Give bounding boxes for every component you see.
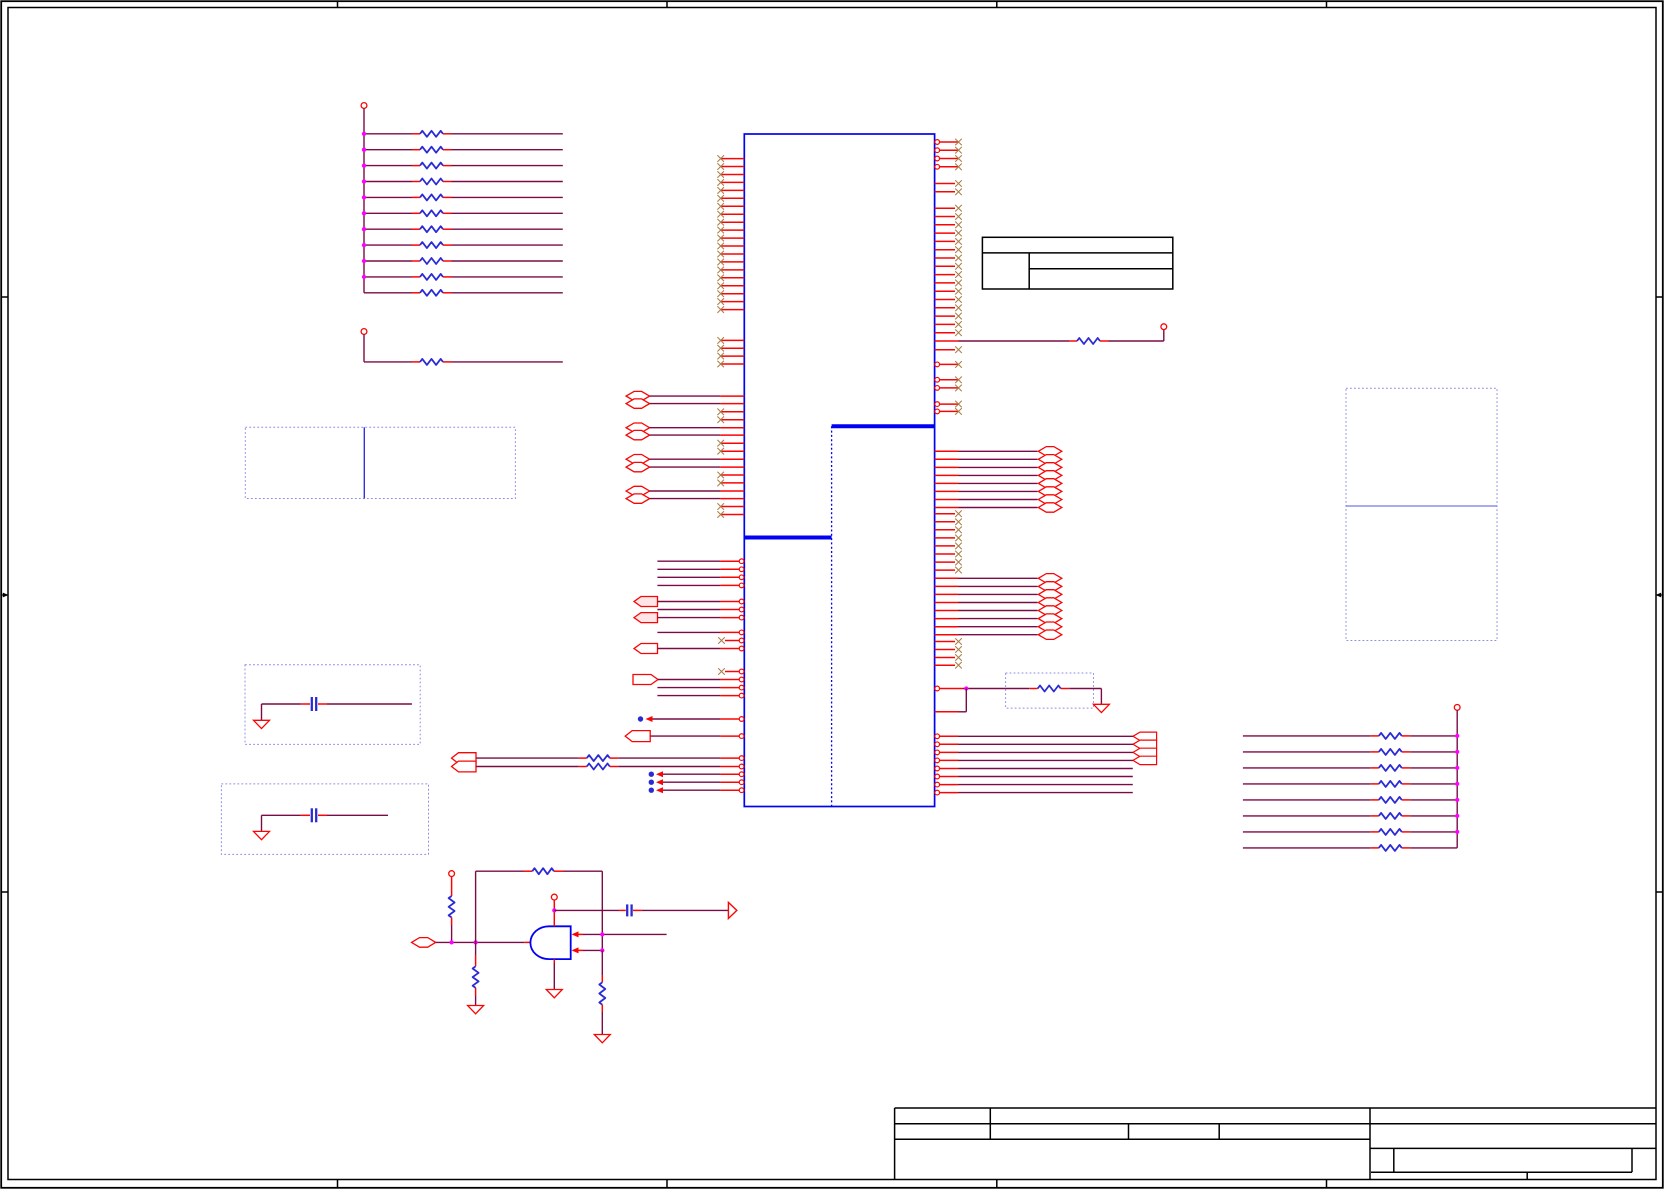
IC pin NC right bub 3 [935,155,962,162]
bus terminal B1-6 [1038,495,1062,504]
resistor R10 [364,274,563,280]
wire feedback right [564,871,603,950]
IC pin NC left 15 [717,267,744,274]
bus terminal pair 1b [626,399,650,408]
junction JRB3 [1455,766,1459,770]
IC U1 dotted section divider [831,426,833,806]
junction J2 [473,940,477,944]
IC pin NC left 12 [717,243,744,250]
IC pin NC left 17 [717,283,744,290]
junction JR4 [362,179,366,183]
bus terminal C-0 [1133,732,1157,740]
gate input arrow 1 [572,931,667,937]
IC pin NC left 3 [717,171,744,178]
bus terminal pair 4a [626,486,650,495]
IC U1 body [744,134,934,807]
wire net F5 [651,734,744,739]
wire cap net [554,909,626,911]
junction J5 [552,908,556,912]
gate bottom pin net [553,959,555,989]
wire feedback top [476,871,524,942]
bus terminal B1-2 [1038,463,1062,472]
wire net E1 [935,774,1133,779]
wire net A8 [657,693,744,698]
bus terminal B2-4 [1038,606,1062,615]
resistor R9 [364,258,563,264]
IC pin NC right bub 1 [935,139,962,146]
wire net A4 [657,583,744,588]
junction JR1 [362,132,366,136]
resistor R3 [364,163,563,169]
bidir terminal T2 [452,761,477,772]
wire net F2 [658,615,744,620]
IC pin NC left 16 [717,275,744,282]
IC pin NC left mid 1 [717,337,744,344]
ground G6 [546,990,562,998]
component outline box B1 [245,427,515,498]
bus wire B2-0 [935,577,1038,579]
IC pin NC rs2a 5 [935,543,962,550]
IC pin NC rs2b 1 [935,638,962,645]
IC pin NC left 13 [717,251,744,258]
bus terminal B2-0 [1038,574,1062,583]
bus terminal pair 3b [626,462,650,471]
IC pin NC left 6 [717,195,744,202]
IC pin NC cluster 4d [717,511,744,518]
IC pin NC left 20 [717,306,744,313]
bus terminal B1-7 [1038,503,1062,512]
wire main net [436,941,531,943]
IC pin NC right grp 9 [935,271,962,278]
IC pin NC rs2a 4 [935,535,962,542]
IC pin NC left 2 [717,163,744,170]
power pin P1 [361,103,367,109]
node stub D3 [649,779,744,785]
IC pin NC rs2a 8 [935,567,962,574]
wire pin 4b [650,498,745,500]
junction J3 [600,932,604,936]
resistor R4 [364,179,563,185]
IC pin NC right bub2 3 [935,385,962,392]
title block [895,1108,1656,1180]
box B2 divider [1346,505,1497,507]
IC pin NC rs2a 2 [935,519,962,526]
wire net F4 [658,677,744,682]
junction JR8 [362,243,366,247]
IC pin NC rs2a 3 [935,527,962,534]
bus wire B1-6 [935,499,1038,501]
IC pin NC right bub 2 [935,147,962,154]
IC pin NC right grp 5 [935,238,962,245]
IC pin NC right grp 14 [935,313,962,320]
bus terminal pair 3a [626,455,650,464]
IC pin NC left 14 [717,259,744,266]
IC pin NC left mid 3 [717,353,744,360]
junction JR7 [362,227,366,231]
wire net F1 [658,599,744,604]
wire pin 1b [650,403,745,405]
IC pin NC cluster 2d [717,448,744,455]
gate input arrow 2 [572,947,603,953]
power pin P2 [361,329,367,335]
bus terminal B2-3 [1038,598,1062,607]
resistor R11 [364,290,563,296]
power rail net 2 [1456,710,1458,848]
resistor R20 [476,755,744,761]
bus wire B2-5 [935,618,1038,620]
ground G5 [1093,704,1109,712]
bus terminal B2-5 [1038,614,1062,623]
IC pin NC cluster 4c [717,503,744,510]
power pin P5 [449,871,455,877]
IC pin NC right grp 16 [935,329,962,336]
bus terminal B2-6 [1038,622,1062,631]
IC pin NC cluster 3d [717,480,744,487]
wire net A7 [657,685,744,690]
resistor R5 [364,194,563,200]
IC pin NC cluster 1d [717,416,744,423]
bus wire B1-5 [935,490,1038,492]
bus wire B1-0 [935,450,1038,452]
wire pin 2a [650,427,745,429]
wire pin 1a [650,395,745,397]
IC pin NC right bub 4 [935,164,962,171]
resistor R19 pullup [935,330,1164,345]
frame centre arrow right [1656,593,1663,598]
bus terminal B1-0 [1038,447,1062,456]
wire net A3 [657,575,744,580]
bus terminal B2-7 [1038,630,1062,639]
IC pin NC left 18 [717,290,744,297]
IC pin NC right grp 12 [935,296,962,303]
IC pin NC right grp 7 [935,255,962,262]
power pin P3 [1161,324,1167,330]
resistor RB8 [1243,845,1457,851]
IC pin NC left 5 [717,187,744,194]
wire pin 3a [650,458,745,460]
resistor R21 [476,764,744,770]
bus terminal B1-5 [1038,487,1062,496]
bus terminal B1-1 [1038,455,1062,464]
bus wire B2-7 [935,634,1038,636]
IC pin NC s2-2 [718,668,744,675]
bus wire B2-4 [935,610,1038,612]
resistor RB6 [1243,813,1457,819]
bus wire B2-3 [935,602,1038,604]
IC pin NC right 2 [935,189,962,196]
IC pin NC right bub3 1 [935,401,962,408]
flag terminal F1 [634,597,658,607]
revision table [982,237,1172,289]
resistor RB5 [1243,797,1457,803]
power pin P6 [551,894,557,900]
IC U1 section divider bold bar upper [832,424,935,428]
node stub D2 [649,771,744,777]
bus terminal pair 1a [626,391,650,400]
junction J4 [600,948,604,952]
box B1 divider [363,427,365,498]
wire net E3 [935,790,1133,795]
flag terminal F3 [634,644,658,654]
junction JR9 [362,259,366,263]
wire net RC1 [935,686,1006,691]
IC pin NC rs2b 4 [935,662,962,669]
bus wire B1-3 [935,474,1038,476]
IC pin NC right grp 4 [935,230,962,237]
wire pin 3b [650,466,745,468]
bus terminal pair 4b [626,494,650,503]
IC pin NC rs2a 6 [935,551,962,558]
bus terminal B2-1 [1038,582,1062,591]
resistor R7 [364,226,563,232]
IC pin NC right bub2 2 [935,377,962,384]
component outline box B3 [245,665,420,745]
bus terminal C-2 [1133,748,1157,756]
bus wire C-3 [935,758,1133,763]
bus wire C-0 [935,734,1133,739]
component outline box B2 [1346,388,1497,640]
capacitor C3 [626,904,628,916]
IC pin NC cluster 1c [717,409,744,416]
resistor R30 [449,877,455,943]
node stub D1 [638,716,744,722]
bus terminal pair 2a [626,423,650,432]
IC pin NC left 8 [717,211,744,218]
bus wire B1-2 [935,466,1038,468]
wire net A1 [657,559,744,564]
junction JR5 [362,195,366,199]
resistor R31 [524,868,564,874]
bus terminal C-3 [1133,756,1157,764]
ground G3 [468,1006,484,1014]
bus terminal C-1 [1133,740,1157,748]
junction JR3 [362,163,366,167]
wire net F3 [658,646,744,651]
junction J1 [449,940,453,944]
bus terminal B2-2 [1038,590,1062,599]
power pin P4 [1454,705,1460,711]
IC pin NC right grp 13 [935,305,962,312]
bus wire C-2 [935,750,1133,755]
junction JRB4 [1455,782,1459,786]
bus wire B2-6 [935,626,1038,628]
junction J-RC1 [964,686,968,690]
IC pin NC right grp 11 [935,288,962,295]
IC pin NC rs2b 3 [935,654,962,661]
IC pin NC left 1 [717,155,744,162]
bus wire B2-2 [935,593,1038,595]
resistor RB2 [1243,749,1457,755]
IC pin NC left 4 [717,179,744,186]
junction JR6 [362,211,366,215]
junction JR2 [362,148,366,152]
wire net A5 [657,607,744,612]
bus terminal pair 2b [626,430,650,439]
resistor R22 box [1006,673,1094,708]
IC pin NC left mid 2 [717,345,744,352]
wire cap out [633,909,728,911]
capacitor C2 [262,808,389,831]
junction JRB5 [1455,798,1459,802]
wire pin 4a [650,490,745,492]
wire pin 2b [650,434,745,436]
IC pin NC left 11 [717,235,744,242]
junction JRB2 [1455,750,1459,754]
IC pin NC rs2a 1 [935,510,962,517]
IC pin NC left 10 [717,227,744,234]
IC pin NC right grp 3 [935,222,962,229]
IC pin NC right grp 15 [935,321,962,328]
junction JR10 [362,275,366,279]
bus terminal B1-4 [1038,479,1062,488]
resistor R2 [364,147,563,153]
component outline box B4 [221,784,428,855]
junction JRB6 [1455,814,1459,818]
frame centre arrow left [1,593,8,598]
IC pin NC right 1 [935,180,962,187]
IC pin NC right grp 8 [935,263,962,270]
output terminal T4 [728,902,736,918]
resistor R12 [364,334,563,365]
resistor RB7 [1243,829,1457,835]
junction JRB7 [1455,830,1459,834]
IC pin NC right grp 2 [935,213,962,220]
IC pin NC left 19 [717,298,744,305]
IC pin NC right grp 1 [935,205,962,212]
resistor RB4 [1243,781,1457,787]
bus wire B1-4 [935,482,1038,484]
bus wire B2-1 [935,585,1038,587]
IC pin NC cluster 3c [717,472,744,479]
IC pin NC right grp 6 [935,246,962,253]
capacitor C1 [262,697,412,720]
IC pin NC right grp 10 [935,280,962,287]
AND gate U2 [530,926,570,959]
ground G2 [254,831,270,839]
ground G1 [254,720,270,728]
IC pin NC left 7 [717,203,744,210]
resistor R6 [364,210,563,216]
bus wire C-1 [935,742,1133,747]
IC U1 section divider bold bar lower [744,536,831,540]
IC pin NC left mid 4 [717,361,744,368]
bidir terminal T3 [412,938,436,948]
wire net A6 [657,630,744,635]
bus wire B1-7 [935,507,1038,509]
resistor R22 [1006,686,1102,705]
power rail net [363,108,365,292]
IC pin NC right 349 [935,346,962,353]
IC pin NC right bub3 2 [935,408,962,415]
junction JRB1 [1455,734,1459,738]
IC pin NC rs2b 2 [935,646,962,653]
flag terminal F5 [625,731,650,742]
bus terminal B1-3 [1038,471,1062,480]
IC pin NC s2-1 [718,637,744,644]
flag terminal F2 [634,613,658,623]
wire net E2 [935,782,1133,787]
ground G4 [594,1035,610,1043]
IC pin NC rs2a 7 [935,559,962,566]
resistor RB3 [1243,765,1457,771]
IC pin NC left 9 [717,219,744,226]
resistor R32 [473,942,479,1005]
flag terminal F4 [633,675,658,685]
resistor R1 [364,131,563,137]
resistor RB1 [1243,733,1457,739]
bidir terminal T1 [452,753,477,764]
wire loopback [935,689,967,712]
resistor R8 [364,242,563,248]
resistor R33 [599,950,605,1034]
node stub D4 [649,787,744,793]
gate top pin net [553,900,555,926]
bus wire B1-1 [935,458,1038,460]
IC pin NC cluster 2c [717,440,744,447]
wire net A2 [657,567,744,572]
wire net E0 [935,766,1133,771]
IC pin NC right bub2 1 [935,361,962,368]
